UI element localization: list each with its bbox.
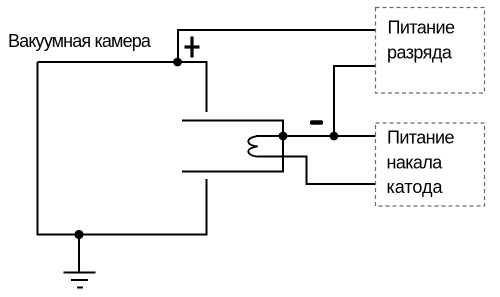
svg-text:Питание: Питание — [388, 18, 455, 38]
svg-text:катода: катода — [387, 177, 444, 197]
svg-text:Вакуумная камера: Вакуумная камера — [8, 31, 152, 51]
svg-text:накала: накала — [387, 153, 444, 173]
svg-text:Питание: Питание — [387, 128, 454, 148]
svg-text:разряда: разряда — [387, 43, 453, 63]
